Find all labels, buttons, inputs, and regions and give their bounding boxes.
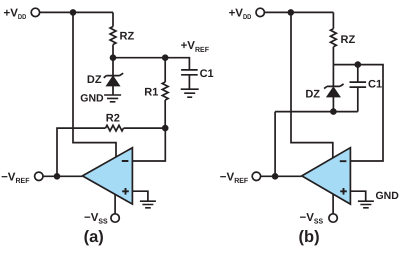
- svg-text:C1: C1: [200, 68, 214, 80]
- svg-text:R2: R2: [106, 113, 120, 125]
- svg-text:RZ: RZ: [120, 31, 135, 43]
- svg-text:GND: GND: [80, 92, 104, 104]
- svg-text:DZ: DZ: [87, 74, 102, 86]
- svg-text:GND: GND: [376, 190, 400, 202]
- svg-text:−VREF: −VREF: [220, 171, 249, 185]
- svg-text:+VREF: +VREF: [181, 40, 210, 54]
- svg-text:+VDD: +VDD: [229, 7, 252, 21]
- svg-text:−VSS: −VSS: [300, 212, 324, 226]
- svg-text:−VSS: −VSS: [84, 212, 108, 226]
- svg-text:C1: C1: [368, 78, 382, 90]
- svg-text:(b): (b): [299, 228, 320, 246]
- svg-text:−VREF: −VREF: [1, 171, 30, 185]
- svg-text:RZ: RZ: [341, 34, 356, 46]
- svg-text:DZ: DZ: [305, 88, 320, 100]
- svg-text:R1: R1: [144, 87, 158, 99]
- svg-text:(a): (a): [84, 228, 104, 246]
- svg-text:+VDD: +VDD: [4, 7, 27, 21]
